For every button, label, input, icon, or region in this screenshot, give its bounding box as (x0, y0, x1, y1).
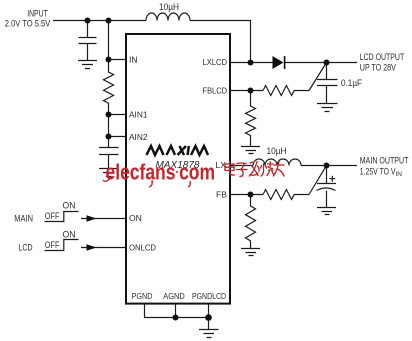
step waveform MAIN (45, 212, 79, 222)
diode D1 (273, 56, 284, 69)
resistor R5 FB bottom (246, 195, 256, 249)
svg-text:10µH: 10µH (159, 2, 179, 12)
node FBLCD (248, 88, 254, 94)
node AGND (173, 315, 179, 321)
node input-C1 (85, 18, 91, 24)
wire diagonal to LCD node (309, 63, 327, 91)
wire input to inductor (53, 20, 146, 22)
wire AIN1 to AIN2 (109, 115, 126, 137)
wire to IN pin (109, 21, 126, 60)
svg-text:UP TO 28V: UP TO 28V (360, 63, 396, 73)
wire PGNDLCD stub (208, 304, 210, 330)
watermark swashes (103, 176, 190, 187)
ground C4 (317, 208, 336, 215)
wire PGND stub (145, 304, 176, 318)
node LCD output (324, 60, 330, 66)
svg-text:LXLCD: LXLCD (203, 57, 228, 67)
ground R3 (241, 147, 260, 154)
wire inductor to LXLCD column (190, 21, 251, 63)
node AIN1 (106, 112, 112, 118)
svg-text:FBLCD: FBLCD (203, 86, 228, 96)
node PGNDLCD (205, 314, 212, 321)
svg-text:LCD: LCD (19, 242, 33, 252)
wire diode to LCD output (285, 62, 358, 64)
node LXLCD column (248, 60, 254, 66)
svg-text:MAIN OUTPUT: MAIN OUTPUT (360, 156, 409, 166)
wire diagonal to MAIN node (309, 166, 327, 195)
ground R5 (241, 249, 260, 256)
svg-text:AIN2: AIN2 (129, 132, 148, 142)
wire FB (231, 194, 263, 196)
wire AGND stub (176, 304, 209, 318)
svg-text:ONLCD: ONLCD (129, 243, 156, 253)
svg-text:LCD OUTPUT: LCD OUTPUT (360, 52, 405, 62)
ground C3 (317, 104, 338, 112)
svg-text:PGND: PGND (132, 291, 153, 301)
svg-text:elecfans·com: elecfans·com (106, 160, 216, 185)
ground C1 (78, 61, 97, 69)
capacitor C3 0.1uF (317, 63, 338, 104)
wire inductor to MAIN output (301, 165, 357, 167)
svg-text:PGNDLCD: PGNDLCD (192, 291, 226, 301)
wire LX to inductor (231, 165, 253, 167)
resistor R1 (104, 60, 114, 115)
watermark chinese characters (225, 162, 284, 177)
IC U1 MAX1878 (126, 34, 230, 304)
svg-text:ON: ON (63, 201, 76, 211)
svg-text:INPUT: INPUT (27, 9, 48, 19)
capacitor C1 input (79, 21, 97, 61)
node AIN2 (106, 134, 112, 140)
ground C2 (99, 169, 119, 177)
node FB (248, 192, 254, 198)
wire ONLCD (81, 247, 126, 249)
svg-text:2.0V TO 5.5V: 2.0V TO 5.5V (5, 19, 51, 29)
capacitor C4 output polarized (317, 166, 337, 208)
svg-text:AGND: AGND (163, 291, 185, 301)
ground PGND net (199, 330, 219, 338)
wire AIN1 stub (109, 114, 126, 116)
wire FBLCD (231, 90, 263, 92)
svg-text:MAIN: MAIN (14, 213, 33, 223)
inductor L2 10uH (253, 159, 301, 165)
svg-text:ON: ON (129, 213, 142, 223)
step waveform LCD (45, 240, 79, 251)
svg-text:FB: FB (216, 190, 227, 200)
inductor L1 10uH (146, 13, 190, 20)
svg-text:OFF: OFF (45, 240, 60, 250)
capacitor C2 AIN2 (99, 137, 119, 169)
node MAIN output (324, 163, 330, 169)
resistor R2 FBLCD top (263, 86, 309, 96)
wire ON (81, 218, 126, 220)
resistor R3 FBLCD bottom (246, 91, 256, 147)
svg-text:10µH: 10µH (267, 146, 287, 156)
svg-text:ON: ON (63, 230, 76, 240)
svg-text:AIN1: AIN1 (129, 110, 148, 120)
arrowhead ON (87, 215, 97, 221)
node input-IN column (106, 18, 112, 24)
node IN (106, 57, 112, 63)
svg-text:OFF: OFF (45, 211, 60, 221)
arrowhead ONLCD (87, 244, 97, 250)
resistor R4 FB top (263, 190, 309, 200)
svg-text:IN: IN (129, 55, 138, 65)
logo MAXIM (147, 146, 209, 155)
wire LXLCD to diode (231, 62, 273, 64)
plus sign C4 (329, 176, 335, 182)
svg-text:0.1µF: 0.1µF (341, 78, 362, 88)
